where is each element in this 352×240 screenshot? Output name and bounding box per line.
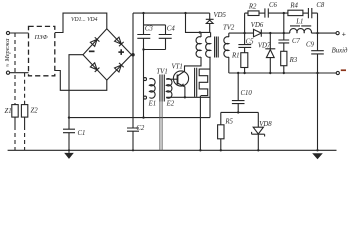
svg-text:E1: E1 <box>148 101 157 108</box>
svg-text:C4: C4 <box>167 26 176 33</box>
secondary output wire <box>229 32 254 34</box>
svg-text:C5: C5 <box>246 39 255 46</box>
svg-text:VD1... VD4: VD1... VD4 <box>71 16 98 23</box>
input terminal top <box>6 31 9 34</box>
transformer TV2 secondary winding <box>224 33 229 73</box>
junction chassis rail C1 <box>68 149 70 151</box>
transformer TV2 winding 2 <box>206 32 211 57</box>
diode VD7 <box>265 33 275 73</box>
TV1 screen drops <box>160 102 162 151</box>
svg-text:L1: L1 <box>295 19 303 26</box>
junction chassis rail E-element drop <box>199 149 201 151</box>
junction C3 C4 bus <box>142 48 144 50</box>
svg-text:+: + <box>342 30 346 39</box>
filter box dashed <box>29 26 55 75</box>
VT1 collector <box>178 57 202 76</box>
resistor R2 <box>248 11 259 16</box>
diode bottom-right <box>114 63 123 72</box>
transformer TV1 winding E2 <box>166 79 172 99</box>
svg-text:C8: C8 <box>316 2 325 9</box>
wire VD6 cathode to L1 <box>261 32 290 34</box>
wire R2 branch down <box>245 13 248 33</box>
TV1 core <box>160 75 164 102</box>
TV2 core <box>215 37 219 58</box>
top rail <box>133 12 210 14</box>
polarity minus mark <box>341 69 346 71</box>
svg-text:VD7: VD7 <box>258 42 271 49</box>
svg-text:R3: R3 <box>289 57 298 64</box>
junction bridge plus vertex <box>132 54 134 56</box>
junction emitter node <box>184 96 186 98</box>
junction secondary rail C10 <box>237 72 239 74</box>
junction TV2 winding 1 top <box>199 31 201 33</box>
svg-text:E2: E2 <box>166 101 175 108</box>
svg-text:C3: C3 <box>145 26 154 33</box>
svg-text:≈: ≈ <box>6 63 12 67</box>
junction secondary rail R1 <box>243 72 245 74</box>
ground symbol right <box>312 153 323 159</box>
wire bridge minus to rail <box>69 55 83 118</box>
wire E-element top to TV2 <box>209 57 211 118</box>
bridge rectifier VD1-VD4 diamond <box>83 29 132 80</box>
VT1 emitter <box>178 83 185 97</box>
svg-text:R4: R4 <box>289 3 298 10</box>
svg-text:Мережа: Мережа <box>4 39 11 63</box>
capacitor C8 <box>308 8 317 33</box>
junction chassis rail ground drop <box>316 149 318 151</box>
junction output wire C7 <box>283 32 285 34</box>
varistor Z2 <box>24 73 26 105</box>
wire filter bottom out to bridge bottom <box>55 71 107 91</box>
output wire to plus terminal <box>311 32 336 34</box>
wire top rail jog down to TV2 tops <box>186 13 211 32</box>
secondary ground rail <box>229 72 336 74</box>
wire filter top out to bridge top <box>55 13 107 32</box>
junction minus rail C3C4 branch <box>142 116 144 118</box>
minus sign bridge <box>89 51 95 53</box>
svg-text:Z1: Z1 <box>5 108 12 115</box>
varistor Z1 <box>14 33 16 105</box>
svg-text:C1: C1 <box>78 130 86 137</box>
wire top input <box>10 32 29 34</box>
wire R4 left down to output wire <box>283 13 285 33</box>
ground symbol left <box>64 150 74 159</box>
svg-text:R2: R2 <box>248 4 257 11</box>
capacitor C6 <box>265 8 288 17</box>
junction secondary rail ground drop <box>316 72 318 74</box>
feedback winding E-element <box>195 68 197 97</box>
junction secondary rail R3 <box>283 72 285 74</box>
minus rail <box>69 117 210 119</box>
junction minus rail C1 <box>68 116 70 118</box>
transformer TV2 winding 1 <box>196 32 201 57</box>
svg-text:C2: C2 <box>136 125 145 132</box>
diode VD5 <box>206 13 214 32</box>
svg-text:R1: R1 <box>231 53 240 60</box>
junction feedback node C10 <box>237 111 239 113</box>
svg-text:VD5: VD5 <box>214 12 227 19</box>
plus sign bridge <box>118 51 124 53</box>
emitter return wire <box>166 96 210 98</box>
feedback wire <box>221 111 258 113</box>
snubber C5 <box>238 33 251 53</box>
wire C3C4 bottom bus down to minus rail <box>144 50 166 118</box>
wire bridge plus up and down through C2 <box>127 13 139 150</box>
transformer TV1 winding E1 <box>144 78 147 81</box>
svg-text:C6: C6 <box>269 2 278 9</box>
wire bottom input <box>10 72 29 74</box>
resistor R5 <box>220 112 222 124</box>
junction chassis rail VD8 <box>257 149 259 151</box>
capacitor C3 <box>137 13 165 49</box>
svg-text:TV2: TV2 <box>223 24 235 31</box>
svg-text:Вихід: Вихід <box>332 47 348 54</box>
capacitor C7 <box>278 33 289 51</box>
svg-text:VT1: VT1 <box>172 64 183 71</box>
input terminal bottom <box>6 71 9 74</box>
bottom chassis rail <box>8 149 337 151</box>
svg-text:C7: C7 <box>292 38 301 45</box>
junction output wire VD7 <box>269 32 271 34</box>
junction output wire C9 <box>316 32 318 34</box>
svg-text:TV1: TV1 <box>156 69 167 76</box>
capacitor C1 <box>63 118 75 151</box>
junction secondary rail VD7 <box>269 72 271 74</box>
svg-text:ПЗФ: ПЗФ <box>34 34 49 41</box>
transistor VT1 <box>173 71 188 86</box>
svg-text:Z2: Z2 <box>31 108 39 115</box>
capacitor C4 <box>159 25 172 50</box>
diode VD6 <box>254 29 262 36</box>
capacitor C9 <box>311 33 324 150</box>
resistor R4 <box>288 10 303 15</box>
wire E2 to base <box>166 78 177 80</box>
svg-text:VD8: VD8 <box>259 121 272 128</box>
inductor L1 <box>290 29 312 34</box>
diode bottom-left <box>90 63 99 72</box>
zener VD8 <box>252 112 265 150</box>
svg-text:C10: C10 <box>241 90 253 97</box>
junction output wire C5 <box>243 32 245 34</box>
capacitor C10 <box>232 73 245 112</box>
wire E-element bottom to chassis <box>199 96 201 151</box>
svg-text:R5: R5 <box>224 118 233 125</box>
junction top rail TV2 branch <box>184 12 186 14</box>
junction top row R4 <box>283 12 285 14</box>
resistor R1 <box>241 53 248 68</box>
junction top rail C3 <box>142 12 144 14</box>
diode top-right <box>114 37 123 46</box>
diode top-left <box>90 37 99 46</box>
svg-text:C9: C9 <box>306 41 315 48</box>
junction chassis rail C2 <box>132 149 134 151</box>
resistor R3 <box>281 51 287 65</box>
junction chassis rail R5 <box>220 149 222 151</box>
svg-text:VD6: VD6 <box>251 22 264 29</box>
